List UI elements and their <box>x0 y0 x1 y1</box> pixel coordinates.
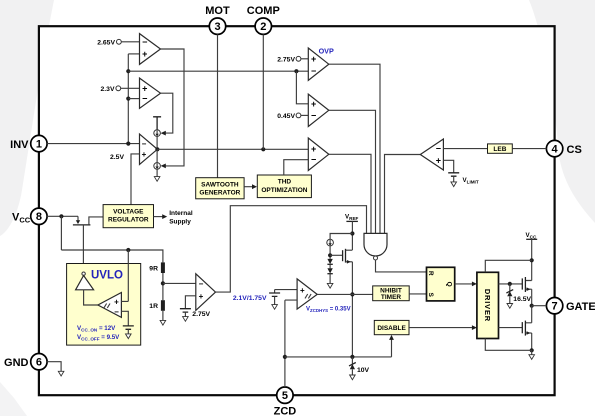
svg-text:+: + <box>142 150 147 159</box>
transistor Q4 gate driver low side <box>522 321 531 336</box>
wire VREF to current source I3 <box>330 234 352 240</box>
svg-text:S: S <box>427 293 434 298</box>
node COMP junction <box>261 147 265 151</box>
comparator U6 THD <box>308 138 329 171</box>
pin 6 GND <box>4 354 47 370</box>
wire divider middle <box>162 273 164 300</box>
svg-text:OPTIMIZATION: OPTIMIZATION <box>261 187 307 194</box>
svg-text:2.75V: 2.75V <box>192 311 210 318</box>
wire I3 to diodes <box>329 246 331 259</box>
wire trunk to OVP minus <box>128 70 308 72</box>
ground below 2.1V battery <box>272 305 278 310</box>
wire junction to Q2 gate <box>330 254 343 256</box>
svg-text:3: 3 <box>214 21 220 33</box>
svg-text:−: − <box>199 280 204 289</box>
svg-text:2.5V: 2.5V <box>110 154 124 161</box>
comparator U7 current sense <box>420 139 443 170</box>
current source I2 <box>154 163 161 170</box>
svg-text:LEB: LEB <box>493 146 506 153</box>
wire buffer to UVLO comparator <box>84 290 98 305</box>
zener 16.5V <box>506 284 513 304</box>
svg-text:ZCD: ZCD <box>274 406 297 416</box>
svg-text:INV: INV <box>10 139 29 151</box>
ground below UVLO battery <box>126 334 132 339</box>
wire 2.5V from voltage regulator to U3 plus <box>131 154 140 205</box>
node junction trunk/OVP line <box>126 69 130 73</box>
svg-text:16.5V: 16.5V <box>513 296 531 303</box>
wire I2 to ground <box>156 149 158 176</box>
svg-text:CS: CS <box>567 144 582 156</box>
wire Q3 source to gate node <box>531 289 533 306</box>
supply bar above current source I1 <box>153 117 161 130</box>
svg-text:COMP: COMP <box>247 5 280 17</box>
ground below V limit <box>451 182 457 187</box>
node bottom rail junction <box>530 348 534 352</box>
svg-text:2: 2 <box>260 21 266 33</box>
svg-text:−: − <box>142 140 147 149</box>
ground below I2 <box>154 177 160 182</box>
wire LEB to pin 4 <box>512 148 546 150</box>
svg-text:−: − <box>311 155 316 165</box>
svg-text:2.75V: 2.75V <box>277 56 295 63</box>
wire battery to U9 plus <box>275 289 298 291</box>
svg-text:VOLTAGE: VOLTAGE <box>113 208 144 215</box>
svg-text:−: − <box>114 307 119 316</box>
wire 2.65V to U1 minus <box>121 41 139 43</box>
svg-text:+: + <box>114 297 119 306</box>
comparator U10 UVLO <box>98 293 122 318</box>
svg-text:+: + <box>311 99 316 109</box>
wire THD block to U6 minus <box>284 160 309 175</box>
svg-text:+: + <box>300 286 305 295</box>
wire Q4 source to bottom rail <box>531 333 533 350</box>
wire NAND output to latch R <box>376 260 427 272</box>
battery 2.1V 1.75V threshold <box>269 290 280 297</box>
svg-text:R: R <box>427 271 434 276</box>
wire branch to U5 plus <box>296 71 308 104</box>
wire 2.75V to OVP plus <box>301 58 308 60</box>
wire battery to ground <box>127 329 129 334</box>
arrowhead internal supply <box>162 214 167 219</box>
wire inhibit timer to latch S <box>409 293 426 295</box>
wire 0.45V to U5 minus <box>301 114 308 116</box>
pin 8 VCC <box>12 208 47 224</box>
wire I1 to error amp output node <box>156 136 158 149</box>
svg-text:THD: THD <box>278 179 292 186</box>
svg-text:−: − <box>311 111 316 121</box>
pin 2 COMP <box>247 5 280 34</box>
svg-text:DRIVER: DRIVER <box>483 289 492 322</box>
wire U9 output to inhibit timer <box>317 293 373 295</box>
pin 7 GATE <box>546 298 595 314</box>
ground GND pin wire <box>47 362 64 376</box>
THD optimization block <box>257 175 311 198</box>
wire driver bottom to rail <box>485 339 531 351</box>
comparator U8 VCC monitor <box>196 274 216 311</box>
svg-text:MOT: MOT <box>205 5 230 17</box>
arrowhead into lower current source <box>161 164 166 169</box>
transistor Q2 ZCD clamp <box>343 249 353 264</box>
svg-text:+: + <box>199 292 204 301</box>
wire U8 plus to 2.75V battery <box>185 296 195 309</box>
wire INV trunk vertical <box>127 54 129 144</box>
wire latch Q to driver <box>455 283 473 285</box>
wire ZCD row to zener and disable <box>285 339 392 357</box>
wire VREF stem <box>351 221 353 250</box>
svg-text:Q: Q <box>446 282 453 287</box>
battery UVLO threshold reference <box>123 326 134 329</box>
wire COMP row error amp output <box>157 148 308 150</box>
ground below diodes <box>327 283 333 288</box>
driver block <box>477 272 499 338</box>
svg-text:0.45V: 0.45V <box>277 113 295 120</box>
wire D2 to ground <box>329 274 331 284</box>
svg-text:−: − <box>436 144 441 154</box>
svg-text:+: + <box>436 156 441 166</box>
svg-text:+: + <box>142 49 147 59</box>
ground below 2.75V battery <box>183 317 189 322</box>
current source I1 <box>154 130 161 137</box>
wire U1 plus input <box>128 53 139 55</box>
arrowhead Q into driver <box>472 282 477 287</box>
diode D2 <box>327 264 332 273</box>
node zener tap junction <box>508 282 512 286</box>
buffer inside UVLO <box>76 272 94 290</box>
wire INV row pin1 to error amp <box>47 143 139 145</box>
svg-text:4: 4 <box>552 144 559 156</box>
sawtooth generator block <box>196 178 244 199</box>
node VCC driver junction <box>530 258 534 262</box>
wire U2 output to upper current source <box>161 93 173 133</box>
svg-text:−: − <box>142 37 147 47</box>
node error amp output <box>155 147 159 151</box>
wire sawtooth to THD optimization <box>244 186 252 188</box>
diode D1 <box>327 259 332 264</box>
wire U8 output to NAND input 1 <box>216 206 367 292</box>
wire gate node to lower mosfet drain <box>525 306 531 323</box>
supply bar VCC <box>526 238 537 240</box>
resistor 9R <box>161 262 165 273</box>
svg-text:2.1V/1.75V: 2.1V/1.75V <box>233 295 267 302</box>
node VCC junction <box>59 214 63 218</box>
svg-text:−: − <box>142 94 147 104</box>
wire 2.3V to U2 plus <box>121 87 140 89</box>
svg-text:1R: 1R <box>149 303 158 310</box>
pin 5 ZCD <box>274 387 297 416</box>
wire UVLO minus to reference battery <box>121 311 128 326</box>
svg-text:+: + <box>311 144 316 154</box>
voltage regulator block <box>103 205 153 228</box>
svg-text:2.3V: 2.3V <box>101 86 115 93</box>
battery V limit <box>448 173 459 176</box>
ground below 1R <box>160 320 166 325</box>
pin 4 CS <box>546 140 581 156</box>
svg-text:Internal: Internal <box>169 210 193 217</box>
wire gate node to pin 7 <box>532 305 547 307</box>
NAND gate <box>364 233 387 260</box>
wire VCC to upper mosfet drain <box>525 239 531 280</box>
comparator U9 ZCD <box>297 279 317 309</box>
node 2.75V reference terminal <box>296 56 301 61</box>
svg-text:GATE: GATE <box>566 301 595 313</box>
LEB block <box>488 144 513 153</box>
wire 2.75V battery to ground <box>184 312 186 317</box>
wire ZCD pin to U9 lower input <box>285 300 297 387</box>
svg-text:REGULATOR: REGULATOR <box>108 217 149 224</box>
node Q2 and ZCD comparator output <box>350 292 354 296</box>
svg-text:2.65V: 2.65V <box>97 39 115 46</box>
wire MOT pin to sawtooth generator <box>217 34 219 177</box>
wire VCC row from pin 8 <box>47 215 78 217</box>
wire tap to U8 minus <box>163 282 196 284</box>
supply bar VREF <box>346 220 358 222</box>
svg-text:1: 1 <box>36 139 42 151</box>
wire U1 output to lower current source <box>161 49 185 166</box>
wire U6 output to NAND input 2 <box>329 154 371 233</box>
svg-text:−: − <box>311 66 316 76</box>
wire U7 minus to LEB <box>443 148 487 150</box>
arrowhead disable into driver <box>472 325 477 330</box>
wire Q2 source down <box>351 262 353 357</box>
wire OVP output to NAND input 4 <box>329 64 380 233</box>
node VREF junction <box>350 231 354 235</box>
wire disable to driver <box>409 327 473 329</box>
pin 1 INV <box>10 135 47 151</box>
comparator U2 2.3V <box>140 78 161 108</box>
svg-text:UVLO: UVLO <box>91 270 123 282</box>
inhibit timer block <box>373 286 410 301</box>
svg-text:GND: GND <box>4 357 29 369</box>
arrowhead into upper current source <box>161 131 166 136</box>
svg-text:DISABLE: DISABLE <box>377 325 406 332</box>
disable block <box>374 320 409 334</box>
svg-text:10V: 10V <box>357 367 370 374</box>
wire V limit to ground <box>453 176 455 182</box>
ground below bottom rail <box>529 355 535 360</box>
wire internal supply arrow <box>154 216 164 218</box>
comparator U4 OVP <box>308 48 329 80</box>
wire U5 output to NAND input 3 <box>329 110 376 233</box>
svg-text:7: 7 <box>552 301 558 313</box>
node ZCD trunk junction <box>283 355 287 359</box>
svg-text:OVP: OVP <box>319 47 334 56</box>
wire rail to ground <box>531 350 533 354</box>
node zener row junction <box>350 355 354 359</box>
pin 3 MOT <box>205 5 230 34</box>
node junction INV/trunk <box>126 142 130 146</box>
wire 1R to ground <box>162 311 164 321</box>
transistor Q1 startup pass device <box>73 216 103 272</box>
wire CS comparator output to NAND input 5 <box>385 155 421 234</box>
svg-text:VZCDHYS = 0.35V: VZCDHYS = 0.35V <box>306 307 351 314</box>
node rail UVLO sense junction <box>126 248 130 252</box>
svg-text:SAWTOOTH: SAWTOOTH <box>201 181 239 188</box>
transistor Q3 gate driver high side <box>522 277 531 292</box>
wire driver to upper mosfet gate <box>499 283 523 285</box>
ground below 16.5V zener <box>507 304 513 309</box>
ground below 10V zener <box>350 375 356 380</box>
svg-text:+: + <box>142 83 147 93</box>
node I3 gate junction <box>328 253 332 257</box>
comparator U1 2.65V OVP <box>140 34 161 65</box>
current source I3 <box>327 239 334 246</box>
wire COMP pin to error amp output <box>262 34 264 149</box>
comparator U5 0.45V <box>308 94 329 126</box>
UVLO block <box>67 264 141 346</box>
node divider tap <box>161 281 165 285</box>
svg-text:9R: 9R <box>149 265 158 272</box>
zener 10V <box>349 357 356 375</box>
arrowhead into disable bottom <box>389 335 394 340</box>
svg-text:8: 8 <box>36 211 42 223</box>
wire U7 plus to V limit <box>443 160 453 173</box>
node OVP branch junction <box>294 69 298 73</box>
svg-text:TIMER: TIMER <box>381 294 402 301</box>
battery 2.75V reference <box>180 309 191 312</box>
wire driver top to VCC <box>485 260 531 272</box>
arrowhead into THD optimization <box>252 184 257 189</box>
wire battery to ground <box>274 296 276 304</box>
svg-text:Supply: Supply <box>169 218 191 225</box>
svg-text:5: 5 <box>282 390 288 402</box>
wire driver to lower mosfet gate <box>499 327 523 329</box>
wire UVLO plus sense <box>121 250 128 301</box>
node 0.45V reference terminal <box>296 113 301 118</box>
error amplifier U3 <box>140 134 158 165</box>
svg-text:+: + <box>311 54 316 64</box>
node 2.3V reference terminal <box>116 86 121 91</box>
RS latch <box>427 267 455 301</box>
svg-text:GENERATOR: GENERATOR <box>199 190 240 197</box>
svg-text:6: 6 <box>36 357 42 369</box>
node gate output junction <box>530 304 534 308</box>
node junction trunk/U2 minus <box>126 97 130 101</box>
node 2.65V reference terminal <box>117 39 122 44</box>
wire U2 minus input <box>128 98 139 100</box>
wire VCC to divider rail <box>61 216 162 262</box>
resistor 1R <box>161 300 165 311</box>
